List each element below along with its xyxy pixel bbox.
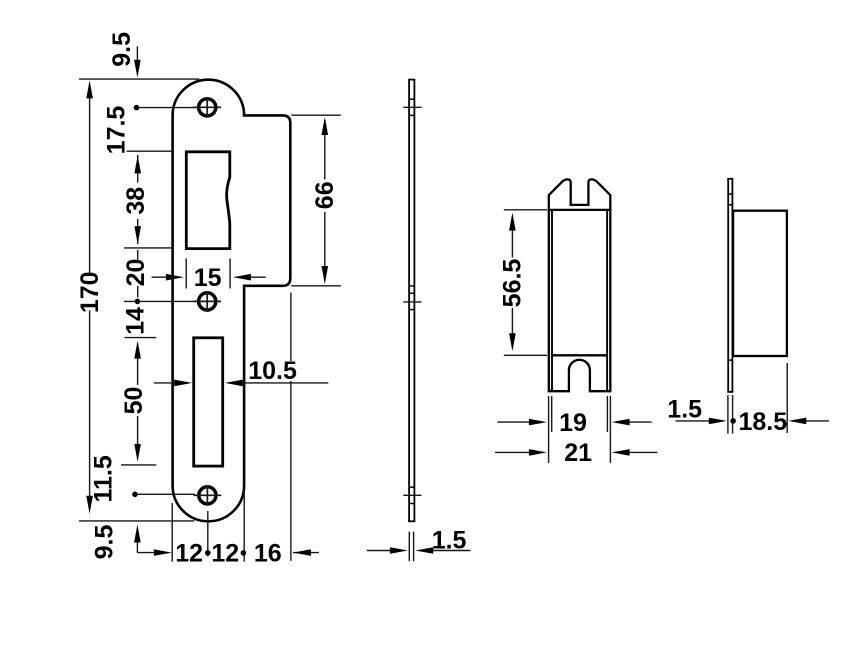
dot bottom row right (241, 550, 247, 556)
dim 9.5 bottom shaft (136, 540, 138, 553)
svg-text:38: 38 (122, 187, 150, 215)
bottom row left arrow (154, 549, 172, 556)
ext line cutout1 top (127, 150, 173, 152)
svg-text:9.5: 9.5 (91, 525, 119, 560)
bottom row right tail (293, 552, 319, 554)
56.5 down arrow (509, 333, 516, 351)
dust box inner top edge (549, 209, 611, 211)
svg-text:9.5: 9.5 (108, 32, 136, 67)
svg-text:20: 20 (122, 259, 150, 287)
dim 19 tails (497, 421, 529, 423)
svg-text:50: 50 (120, 387, 148, 415)
ext line cutout2 bottom (121, 464, 156, 466)
170 down arrow (86, 496, 93, 514)
1.5 flange right-pointing arrow (709, 418, 727, 425)
screw hole bottom (194, 485, 222, 506)
side view outline (408, 80, 415, 522)
ext line bottom right edge (243, 489, 245, 562)
box body side (733, 211, 787, 356)
flange ext lines (727, 395, 729, 434)
svg-text:12: 12 (211, 539, 239, 567)
ext line cutout1 bottom (124, 247, 172, 249)
dot flange dim (730, 418, 736, 424)
19 right arrow (612, 419, 630, 426)
66 up arrow (322, 117, 329, 135)
ext line plate bottom (79, 520, 195, 522)
screw hole top (193, 97, 221, 118)
dust box ext lines inner (551, 396, 553, 432)
dust box inner walls (551, 210, 553, 391)
dim 66 ext lines (291, 114, 341, 116)
170 up arrow (86, 80, 93, 98)
svg-text:18.5: 18.5 (739, 408, 788, 436)
dust box inner bottom edge (552, 354, 607, 356)
dim 18.5 right tail (806, 420, 829, 422)
svg-text:170: 170 (76, 271, 104, 313)
56.5 up arrow (509, 213, 516, 231)
dim 56.5 ext lines (504, 209, 547, 211)
svg-text:11.5: 11.5 (90, 455, 118, 502)
ext line bottom centre (207, 511, 209, 557)
dot hole middle centreline (135, 299, 141, 305)
10.5 right arrow (225, 380, 243, 387)
dim 1.5 side view tails (367, 550, 391, 552)
dim 20 line (137, 250, 139, 260)
21 right arrow (612, 449, 630, 456)
dim 1.5 flange tail (675, 420, 709, 422)
svg-text:66: 66 (311, 181, 339, 209)
svg-text:56.5: 56.5 (499, 259, 527, 308)
ext line cutout2 top (125, 337, 157, 339)
bottom row right arrow (293, 549, 311, 556)
faceplate flange section (727, 179, 733, 392)
21 left arrow (529, 449, 547, 456)
1.5 side view left arrow (390, 547, 408, 554)
svg-text:1.5: 1.5 (432, 526, 467, 554)
svg-text:19: 19 (559, 409, 587, 437)
dim 21 tails (495, 451, 529, 453)
dust box ext lines outer (548, 396, 550, 463)
centreline hole bottom (133, 493, 195, 495)
dim 15 tails (152, 276, 166, 278)
10.5 left arrow (174, 380, 192, 387)
deadbolt cutout (lower) (194, 338, 223, 466)
dim 66 line (324, 120, 326, 180)
50 up arrow (134, 341, 141, 359)
50 down arrow (134, 444, 141, 462)
screw hole middle (193, 291, 221, 312)
dot bottom row centre (205, 550, 211, 556)
dot hole top centreline (134, 105, 140, 111)
side view hole centre ticks (403, 107, 421, 495)
svg-text:1.5: 1.5 (667, 395, 702, 423)
centreline hole top (134, 107, 196, 109)
dim 56.5 line (511, 216, 513, 258)
dim 9.5 top shaft (136, 46, 138, 62)
1.5 side view right arrow (415, 547, 433, 554)
ext line flange right (long) (290, 293, 292, 361)
plate outline (173, 80, 291, 522)
flange detail ticks (728, 194, 732, 360)
svg-text:10.5: 10.5 (248, 357, 297, 385)
svg-text:12: 12 (175, 539, 203, 567)
15 right arrow (233, 274, 251, 281)
dim 38 line (137, 155, 139, 183)
19 left arrow (529, 419, 547, 426)
dim 10.5 tails (154, 382, 175, 384)
ext line box right (786, 363, 788, 433)
svg-text:21: 21 (564, 439, 592, 467)
side view hole/flange edge ticks (409, 99, 414, 503)
centreline hole middle (124, 300, 196, 302)
18.5 left-pointing arrow (788, 418, 806, 425)
38 up arrow (134, 155, 141, 173)
svg-text:15: 15 (194, 264, 222, 292)
bottom row dim line left tail (137, 552, 153, 554)
svg-text:16: 16 (254, 539, 282, 567)
svg-text:17.5: 17.5 (103, 106, 131, 155)
9.5 bottom up arrow (134, 525, 141, 543)
15 left arrow (166, 274, 184, 281)
dim 1.5 side view ext lines (408, 532, 410, 562)
9.5 top down arrow (134, 60, 141, 78)
dim 50 line (137, 356, 139, 385)
38 down arrow (134, 226, 141, 244)
latch cutout (upper) with curved lip edge (186, 152, 230, 249)
ext line plate top (79, 78, 199, 80)
svg-text:14: 14 (122, 307, 150, 335)
dim 15 ext lines (185, 259, 187, 289)
ext line bottom left edge (171, 503, 173, 562)
dust box outline (549, 179, 611, 391)
dot hole bottom centreline (132, 492, 138, 498)
dim 170 line (89, 84, 91, 274)
66 down arrow (322, 266, 329, 284)
